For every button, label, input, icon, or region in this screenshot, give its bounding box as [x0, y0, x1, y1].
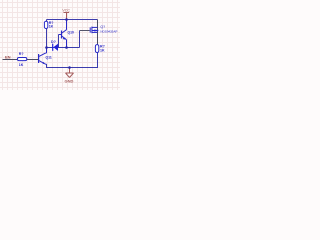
svg-text:GND: GND	[65, 79, 74, 84]
svg-text:1K: 1K	[19, 63, 24, 67]
svg-text:NDS9435AP: NDS9435AP	[100, 29, 117, 33]
svg-text:Q10: Q10	[68, 30, 75, 34]
svg-text:1K: 1K	[49, 25, 54, 29]
svg-text:Q11: Q11	[46, 56, 52, 60]
svg-text:1K: 1K	[100, 48, 105, 52]
svg-text:VCC: VCC	[62, 8, 70, 12]
svg-text:R?: R?	[19, 52, 24, 56]
svg-text:D?: D?	[51, 40, 56, 44]
svg-text:EN: EN	[5, 55, 11, 60]
